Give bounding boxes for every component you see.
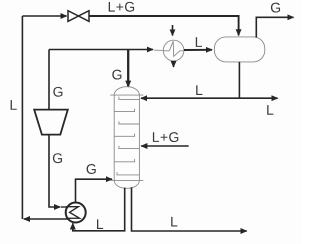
- label G (compressor discharge): [53, 87, 62, 97]
- column C1 shell: [114, 95, 139, 180]
- wire: column bottoms to reboiler: [73, 188, 125, 231]
- label G (compressor suction): [53, 153, 62, 163]
- wire: cooler to drum L: [184, 49, 212, 51]
- tray 1: [119, 97, 139, 100]
- tray 7: [117, 172, 139, 175]
- wire: drum overhead G out: [256, 17, 293, 37]
- wire: feed L+G into column: [141, 145, 189, 147]
- cooler E1 (condenser circle with zigzag): [163, 40, 184, 61]
- wire: stub into reboiler: [61, 206, 67, 208]
- label L (bottoms product): [171, 217, 177, 227]
- tray 5: [119, 146, 139, 149]
- wire: branch down into column top G: [127, 50, 129, 87]
- wire: stub into cooler: [154, 49, 163, 51]
- label L (cooler outlet): [196, 37, 202, 47]
- label G (drum overhead): [271, 3, 280, 13]
- column C1 bottom flange line: [110, 179, 143, 181]
- wire: compressor suction down: [49, 135, 60, 207]
- wire: left recycle riser L: [21, 16, 23, 219]
- label L (left riser): [11, 100, 17, 110]
- tray 3: [119, 121, 139, 124]
- wire: coolant out arrow (bottom of cooler): [173, 61, 175, 67]
- label G (reboiler vapor): [87, 164, 96, 174]
- tray 6: [114, 159, 134, 162]
- wire: discharge header to column and cooler: [49, 49, 153, 51]
- label L+G (feed): [153, 132, 178, 142]
- tray 4: [114, 134, 134, 137]
- column C1 top head: [114, 87, 139, 95]
- wire: reboiler vapor return to column G: [76, 179, 113, 202]
- label L (liquid product): [267, 105, 273, 115]
- compressor K1: [34, 110, 68, 135]
- wire: reflux into column (left): [141, 97, 239, 99]
- label G (column overhead feed): [112, 70, 121, 80]
- wire: top header to drum: [22, 15, 66, 17]
- reboiler E2 (heat exchanger circle with zigzag): [66, 203, 86, 223]
- tray 2: [114, 109, 134, 112]
- label L (reflux): [196, 85, 202, 95]
- wire: liquid product right: [239, 97, 277, 99]
- column C1 top flange line: [110, 94, 143, 96]
- wire: compressor discharge up: [48, 50, 50, 110]
- wire: coolant in arrow (top of cooler): [172, 25, 174, 36]
- label L+G (top header): [109, 2, 134, 12]
- wire: reboiler condensate to left riser: [24, 218, 68, 220]
- wire: column bottoms product right: [132, 187, 247, 231]
- wire: drum bottoms down: [238, 62, 240, 98]
- drum D1 (flash separator): [214, 37, 264, 62]
- label L (reboiler liquid): [97, 219, 103, 229]
- column C1 bottom head: [114, 180, 139, 188]
- valve V1 (expansion valve): [68, 11, 89, 22]
- wire: after valve to drum corner: [89, 16, 239, 35]
